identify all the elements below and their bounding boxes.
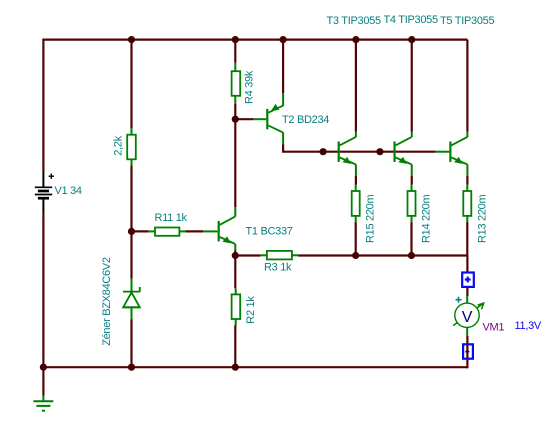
- node bottom rail / zener branch: [128, 364, 135, 371]
- wire between 2,2k and zener: [130, 166, 132, 279]
- node R11 / zener branch: [128, 228, 135, 235]
- wire left rail lower: [42, 214, 44, 368]
- wire 2,2k branch upper: [130, 40, 132, 129]
- resistor 2,2k: [127, 128, 136, 166]
- zener diode BZX84C6V2: [123, 279, 140, 320]
- wire R2 lower: [234, 325, 236, 367]
- wire R14 lower: [410, 222, 412, 255]
- wire R11 right: [186, 230, 203, 232]
- svg-text:R11 1k: R11 1k: [155, 212, 188, 224]
- wire left rail upper: [42, 39, 44, 172]
- wire top rail: [43, 38, 467, 40]
- wire T5 collector vertical: [466, 40, 468, 132]
- wire T1 collector vertical: [234, 119, 236, 207]
- svg-text:T1 BC337: T1 BC337: [246, 226, 293, 238]
- wire emitter rail right: [298, 254, 467, 256]
- node base rail / T4: [376, 148, 383, 155]
- wire voltmeter branch top: [466, 256, 468, 272]
- svg-text:V1 34: V1 34: [55, 185, 82, 197]
- svg-text:R2 1k: R2 1k: [245, 296, 257, 324]
- wire zener to bottom rail: [130, 320, 132, 368]
- wire ground lead: [42, 367, 44, 395]
- voltmeter VM1: [453, 296, 484, 337]
- wire T2 base: [235, 118, 253, 120]
- svg-text:R15 220m: R15 220m: [365, 195, 377, 243]
- wire plus box to voltmeter: [466, 288, 468, 296]
- node top rail / T3: [352, 36, 359, 43]
- wire bottom rail: [43, 366, 467, 368]
- svg-text:T4 TIP3055: T4 TIP3055: [384, 14, 438, 26]
- wire T4 emitter stub: [411, 176, 413, 185]
- svg-text:R4 39k: R4 39k: [244, 70, 256, 104]
- node R4 / T2 base / T1 collector: [232, 116, 239, 123]
- node top rail / R4: [232, 36, 239, 43]
- resistor R4: [232, 63, 241, 105]
- node emitter rail / R14: [408, 252, 415, 259]
- svg-text:11,3V: 11,3V: [515, 320, 542, 332]
- terminal plus: [462, 273, 474, 287]
- resistor R2: [232, 288, 241, 325]
- svg-text:R14 220m: R14 220m: [420, 195, 432, 243]
- wire emitter rail left: [235, 254, 260, 256]
- ground: [33, 396, 53, 411]
- transistor T2 BD234: [253, 93, 283, 144]
- battery V1: [35, 172, 54, 214]
- svg-text:R13 220m: R13 220m: [476, 195, 488, 243]
- svg-text:Zéner BZX84C6V2: Zéner BZX84C6V2: [101, 257, 113, 346]
- terminal minus: [463, 344, 473, 358]
- wire T3 emitter stub: [355, 176, 357, 185]
- transistor T5 TIP3055: [436, 131, 468, 176]
- wire R13 lower: [466, 222, 468, 255]
- wire T3 collector vertical: [355, 40, 357, 132]
- svg-text:V: V: [462, 309, 473, 326]
- transistor T4 TIP3055: [393, 131, 411, 176]
- svg-text:2,2k: 2,2k: [113, 135, 125, 155]
- node emitter rail / R15: [352, 252, 359, 259]
- wire R11 left: [131, 230, 149, 232]
- svg-text:T5 TIP3055: T5 TIP3055: [440, 15, 494, 27]
- wire T5 emitter stub: [466, 176, 468, 185]
- node T1 emitter / R2 / R3: [232, 252, 239, 259]
- resistor R3: [261, 251, 299, 260]
- node bottom rail / ground: [40, 364, 47, 371]
- wire voltmeter to bottom: [466, 336, 468, 368]
- svg-text:R3 1k: R3 1k: [264, 262, 292, 274]
- node top rail / T4: [408, 36, 415, 43]
- resistor R11: [149, 228, 187, 236]
- resistor R15: [352, 184, 360, 223]
- svg-text:T3 TIP3055: T3 TIP3055: [327, 15, 381, 27]
- wire T2 collector to base rail: [283, 144, 436, 152]
- wire T1 emitter stub: [234, 251, 236, 256]
- wire R15 lower: [355, 222, 357, 255]
- resistor R14: [408, 184, 416, 223]
- svg-text:T2 BD234: T2 BD234: [282, 114, 329, 126]
- node top rail / T2: [280, 36, 287, 43]
- wire R2 upper: [234, 256, 236, 289]
- wire T4 collector vertical: [411, 40, 413, 132]
- node base rail / T3: [320, 148, 327, 155]
- svg-text:VM1: VM1: [483, 322, 505, 334]
- transistor T1 BC337: [203, 207, 235, 251]
- wire R4 lower: [234, 104, 236, 119]
- transistor T3 TIP3055: [338, 131, 356, 176]
- wire T2 emitter vertical: [282, 40, 284, 94]
- wire R4 upper: [234, 40, 236, 63]
- node top rail / 2,2k: [128, 36, 135, 43]
- node bottom rail / R2: [232, 364, 239, 371]
- resistor R13: [463, 184, 471, 223]
